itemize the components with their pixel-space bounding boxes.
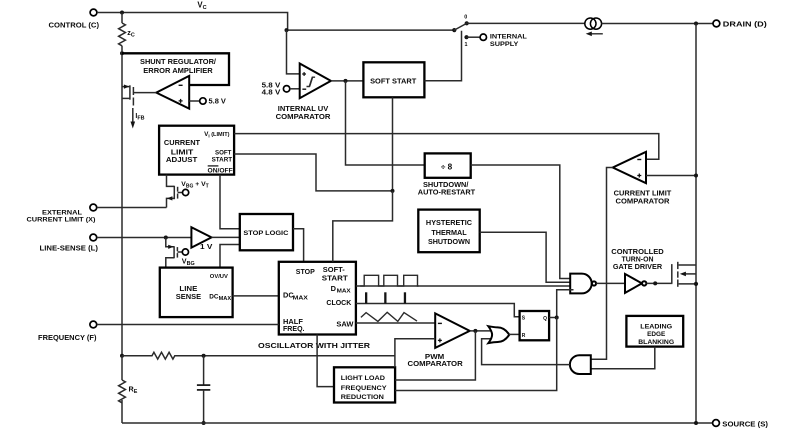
terminal FREQUENCY (F) [38,321,97,342]
terminal 5.8V 4.8V threshold [262,82,290,96]
box LEADING EDGE BLANKING [626,316,683,347]
wire VC from CONTROL to switch feed [97,13,453,31]
wire Q output [549,317,557,319]
comparator U5 current limit [613,152,672,206]
svg-text:Q: Q [543,316,547,322]
svg-text:1 V: 1 V [200,244,213,251]
wire U4 output to soft start box [331,80,364,82]
terminal DRAIN (D) [713,19,767,28]
wire divide-by-8 output to NAND input1 [471,165,574,279]
svg-text:STOP LOGIC: STOP LOGIC [243,230,288,237]
svg-text:SHUTDOWN: SHUTDOWN [428,237,470,246]
svg-text:FREQUENCY: FREQUENCY [341,385,387,392]
transistor Q1 feedback MOSFET [122,85,156,106]
transistor Q2 external current limit MOSFET [167,175,209,208]
wire thermal shutdown output to NAND input2 [480,232,574,282]
wire current source to drain terminal [602,23,714,25]
svg-text:INTERNAL: INTERNAL [490,34,527,41]
transistor Q3 line sense MOSFET [166,238,195,268]
transistor Q4 power MOSFET [672,262,698,287]
box OSCILLATOR WITH JITTER [258,262,371,350]
box SOFT START [363,62,424,97]
svg-text:LEADING: LEADING [640,323,672,330]
svg-text:REDUCTION: REDUCTION [341,394,384,401]
wire VI(LIMIT) to current limit comparator minus [234,134,659,160]
svg-text:MAX: MAX [219,296,232,302]
wire soft start output to switch [424,31,461,81]
wire main left vertical rail [121,46,123,356]
svg-text:START: START [212,156,233,163]
wire Q feedback to NAND input4 [557,290,574,318]
svg-text:COMPARATOR: COMPARATOR [408,359,464,368]
svg-text:VI (LIMIT): VI (LIMIT) [204,131,230,138]
svg-text:DC: DC [209,293,219,300]
svg-text:SENSE: SENSE [176,292,202,301]
terminal EXTERNAL CURRENT LIMIT (X) [27,204,97,223]
svg-text:AUTO-RESTART: AUTO-RESTART [418,187,476,196]
svg-text:SOFT START: SOFT START [370,77,417,86]
wire soft start to oscillator SOFT-START pin [333,191,393,262]
wire soft-start adjust pin [234,154,392,191]
svg-text:SHUNT REGULATOR/: SHUNT REGULATOR/ [140,57,216,66]
comparator U4 internal UV [276,64,332,122]
svg-text:MAX: MAX [293,295,309,301]
wire OV-UV riser to stop logic [220,245,240,268]
terminal INTERNAL SUPPLY [480,34,527,48]
comparator U11 PWM [408,313,470,368]
svg-text:COMPARATOR: COMPARATOR [276,112,332,121]
wire bottom source rail [122,422,712,424]
svg-text:LINE-SENSE (L): LINE-SENSE (L) [40,243,99,252]
terminal CONTROL (C) [49,9,100,29]
wire F terminal to oscillator HALF FREQ [97,324,279,326]
wire NAND output to gate driver [596,282,625,284]
svg-text:SAW: SAW [336,320,353,329]
buffer U3 1V comparator [191,227,212,251]
svg-text:5.8 V: 5.8 V [209,97,227,106]
box STOP LOGIC [240,214,293,250]
wire soft start bottom pin [392,97,394,191]
node junction UV feed [285,28,289,32]
svg-text:MAX: MAX [337,288,351,294]
node junction Zc-bottom [120,51,124,55]
wire UV comparator minus input [290,88,300,90]
svg-text:HYSTERETIC: HYSTERETIC [426,218,472,227]
svg-text:CLOCK: CLOCK [326,298,352,307]
svg-text:COMPARATOR: COMPARATOR [616,196,671,205]
svg-text:OSCILLATOR WITH JITTER: OSCILLATOR WITH JITTER [258,341,371,350]
box HYSTERETIC THERMAL SHUTDOWN [418,210,479,253]
svg-text:5.8 V: 5.8 V [262,82,281,89]
svg-text:GATE DRIVER: GATE DRIVER [613,262,663,271]
svg-text:OV/UV: OV/UV [210,274,228,280]
box divide-by-8 [418,153,476,196]
node junction Q [555,316,559,320]
wire stop logic output to oscillator STOP [293,229,304,262]
box LIGHT LOAD FREQUENCY REDUCTION [334,367,395,402]
wire CLOCK to flip-flop S with waveform [356,292,520,317]
wire U11 output to OR gate input1 [470,330,492,332]
node junction PWM output [473,329,477,333]
svg-text:BLANKING: BLANKING [638,339,674,346]
OR gate U9 [488,326,509,343]
wire U3 output to stop logic [212,236,241,238]
svg-text:START: START [322,273,349,282]
box U2 CURRENT LIMIT ADJUST [159,126,234,175]
current IFB arrow [131,108,145,129]
svg-text:CONTROL (C): CONTROL (C) [49,20,100,29]
wire DMAX to NAND with waveform [356,275,574,286]
wire UV comparator plus input [287,30,300,74]
svg-text:4.8 V: 4.8 V [262,89,281,96]
node junction L-Q3 [164,236,168,240]
svg-text:EDGE: EDGE [647,331,666,338]
svg-text:0: 0 [464,15,467,21]
resistor RE [119,356,138,423]
wire gate driver output to MOSFET gate [647,282,672,284]
wire SAW to PWM comparator with waveform [356,312,435,323]
svg-text:1: 1 [465,42,468,48]
wire U8 output to OR gate input2 [482,339,570,365]
wire ON/OFF pin down to stop logic [220,175,240,229]
wire main drain vertical rail [695,24,697,424]
svg-text:DRAIN (D): DRAIN (D) [723,19,768,28]
svg-text:STOP: STOP [296,267,315,276]
svg-text:CURRENT: CURRENT [164,138,201,147]
svg-text:R: R [522,333,526,339]
wire top drain rail [467,22,585,24]
wire Q branch to light load box [395,318,557,391]
wire X terminal to Q2 [97,207,167,209]
node junction RE top [120,354,124,358]
switch SW1 [452,15,469,49]
node junction gate to LEB [653,281,657,285]
wire U4 output branch to divide-by-8 [346,81,426,165]
wire oscillator bottom pin to light load box [317,335,334,387]
resistor ZC [119,13,135,46]
capacitor C1 [197,356,210,425]
svg-text:÷ 8: ÷ 8 [441,162,453,171]
node junction drain rail sense [694,174,698,178]
resistor R jitter horizontal [122,352,395,359]
svg-text:FREQ.: FREQ. [283,324,305,333]
wire DCMAX line sense to oscillator [233,295,279,297]
svg-text:ERROR AMPLIFIER: ERROR AMPLIFIER [143,66,213,75]
current source I1 [585,18,603,36]
AND gate U8 mirrored [570,355,591,374]
flip-flop U10 [520,311,550,340]
wire U9 output to flip-flop R [509,333,520,335]
wire PWM output branch to light load box [395,331,475,380]
box LINE SENSE [160,268,233,318]
terminal 5.8 V reference [200,97,226,106]
svg-text:EXTERNAL: EXTERNAL [42,209,82,216]
node junction C-Zc [120,11,124,15]
node junction capacitor top [202,354,206,358]
svg-text:CURRENT LIMIT (X): CURRENT LIMIT (X) [27,216,96,223]
svg-text:SOURCE (S): SOURCE (S) [722,419,768,428]
terminal SOURCE (S) [713,419,769,428]
node junction source rail bottom [694,421,698,425]
box shunt regulator label frame [122,53,229,85]
wire U5 plus input from drain rail [646,175,696,177]
op-amp U1 shunt regulator error amplifier [156,76,189,109]
wire U5 output to AND gate input1 [588,168,613,360]
svg-text:THERMAL: THERMAL [431,228,467,237]
wire PWM plus input feed [395,339,435,368]
node junction soft start net [391,189,395,193]
buffer U7 controlled turn-on gate driver [611,247,663,293]
svg-text:ON/OFF: ON/OFF [208,167,233,174]
wire switch pos1 to internal supply terminal [467,36,481,38]
NAND gate U6 [570,274,596,294]
node junction drain rail [694,22,698,26]
wire L terminal to 1V buffer [97,237,192,239]
svg-text:LIGHT LOAD: LIGHT LOAD [341,375,385,382]
svg-text:SUPPLY: SUPPLY [490,41,519,48]
node junction U4 output [344,79,348,83]
terminal LINE-SENSE (L) [40,234,99,252]
wire U1 plus input to 5.8V terminal [189,100,199,102]
wire LEB output to AND gate input2 [588,347,655,369]
svg-text:FREQUENCY (F): FREQUENCY (F) [38,333,97,342]
svg-text:ADJUST: ADJUST [166,155,198,164]
